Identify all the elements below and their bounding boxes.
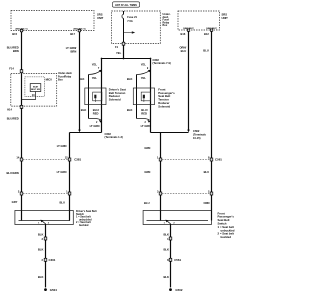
svg-text:SRS: SRS [97,13,103,17]
seat belt logic box [30,84,41,92]
pin H14 [20,105,23,108]
under-dash fuse/relay box (MICU) [11,74,57,107]
svg-text:BLK: BLK [81,108,87,112]
bottom-left bus C602 [70,132,102,134]
bottom-right bus C602 [151,132,189,134]
SRS unit (top left) [11,11,94,31]
pin B12 [210,29,212,31]
svg-text:BLU/RED: BLU/RED [7,46,19,50]
driver BLK pigtail [88,75,90,119]
pin F14 [20,70,23,73]
front passenger's seat belt tension reducer solenoid [133,88,154,105]
svg-text:Fuse 21: Fuse 21 [127,15,137,19]
pin B17 [78,29,80,31]
svg-text:B16: B16 [181,32,186,36]
SRS B12 wire [211,31,213,210]
svg-text:B15: B15 [12,32,17,36]
svg-text:H14: H14 [7,107,12,111]
svg-text:RED: RED [93,111,99,115]
svg-text:C301: C301 [49,258,56,262]
svg-text:LT GRN: LT GRN [57,170,67,174]
front passenger's seat belt switch [143,211,211,225]
svg-text:YEL: YEL [92,76,98,80]
svg-text:ORN/: ORN/ [179,46,186,50]
svg-text:BLK: BLK [127,108,133,112]
connector C301 [44,258,47,261]
svg-text:YEL: YEL [141,76,147,80]
svg-text:GRY: GRY [12,200,18,204]
svg-text:(Terminals 7-9): (Terminals 7-9) [153,61,171,65]
svg-text:YEL: YEL [141,63,147,67]
svg-text:B12: B12 [204,32,209,36]
pin F1 [122,42,125,45]
fuse arrow [124,32,133,34]
svg-text:GRN: GRN [144,146,150,150]
passenger BLK pigtail [136,75,138,119]
svg-text:BLU: BLU [59,200,65,204]
svg-text:BLU: BLU [203,49,209,53]
connector C561 row [162,159,210,161]
svg-text:BLK: BLK [38,247,44,251]
SRS unit (top right) [178,11,220,30]
driver's seat belt switch [15,211,73,225]
connector row 2 (left) [23,193,68,195]
SRS B17 wire [79,32,81,131]
passenger branch main wire [150,59,152,133]
switch arm [42,221,46,224]
ground G502 [169,288,172,291]
svg-text:UNIT: UNIT [222,16,229,20]
svg-text:LT GRN/: LT GRN/ [66,46,77,50]
driver's seat belt tension reducer solenoid [85,88,106,105]
svg-text:BLK: BLK [38,275,44,279]
pin B16 [187,29,189,31]
wire fuse to bus [123,45,125,59]
svg-text:BLU: BLU [181,49,187,53]
connector C561 (lower) [169,258,172,261]
C602 terminal 2 hook (passenger) [137,119,150,121]
svg-text:buckled: buckled [221,235,232,239]
svg-text:RED: RED [141,111,147,115]
svg-text:BLU: BLU [144,201,150,205]
svg-text:buckled: buckled [79,224,89,227]
svg-text:Solenoid: Solenoid [158,104,170,108]
wire below passenger switch [170,225,172,288]
svg-text:BLU/RED: BLU/RED [7,116,19,120]
fuse 21 [123,11,125,14]
L2 wire (driver switch right leg) [69,133,71,211]
svg-text:BELT SW: BELT SW [31,89,40,91]
svg-text:BRN: BRN [70,50,76,54]
svg-text:ORN: ORN [204,201,210,205]
C602 terminal 2 hook (driver) [89,119,102,121]
svg-text:BLK: BLK [38,233,44,237]
HOT AT ALL TIMES [113,2,140,7]
svg-text:BLU: BLU [204,170,210,174]
wire MICU to L1 [22,92,36,100]
svg-text:GRN: GRN [144,170,150,174]
svg-text:C561: C561 [215,158,222,162]
svg-text:LT GRN: LT GRN [57,144,67,148]
svg-text:UNIT: UNIT [97,16,104,20]
svg-text:SEAT: SEAT [33,85,39,88]
svg-text:Box: Box [58,79,63,82]
svg-text:BLU/GRN: BLU/GRN [6,171,18,175]
svg-text:LT GRN: LT GRN [141,124,151,128]
svg-text:C602: C602 [105,132,112,136]
SRS B16 wire [188,31,190,130]
svg-text:MICU: MICU [46,79,53,82]
pin 3 joint [44,237,47,240]
top bus [102,58,151,60]
svg-text:BLK: BLK [163,233,169,237]
svg-text:G504: G504 [50,288,57,292]
svg-text:BLK: BLK [163,247,169,251]
connector row 2 (right) [162,193,210,195]
ground G504 [44,288,47,291]
pin 1 joint [169,237,172,240]
svg-text:YEL: YEL [116,51,122,55]
svg-text:BRN: BRN [13,49,19,53]
svg-text:LT GRN: LT GRN [90,124,100,128]
svg-text:HOT AT ALL TIMES: HOT AT ALL TIMES [115,4,137,7]
svg-text:G502: G502 [175,288,182,292]
svg-text:Box: Box [163,24,168,27]
svg-text:YEL: YEL [92,63,98,67]
svg-text:C561: C561 [174,258,181,262]
passenger switch left leg [160,133,162,211]
svg-text:7.5A: 7.5A [127,19,133,23]
left column L1 wire from SRS to switch [21,32,23,211]
svg-text:(Terminals 1-3): (Terminals 1-3) [105,135,123,139]
svg-text:BLK: BLK [127,77,133,81]
wire below driver switch [45,225,47,288]
driver branch main wire [101,59,103,133]
svg-text:B17: B17 [70,32,75,36]
switch arm [167,221,171,224]
svg-text:C602: C602 [153,58,160,62]
svg-text:SRS: SRS [222,13,228,17]
svg-text:Solenoid: Solenoid [109,98,121,102]
svg-text:BLK: BLK [163,275,169,279]
svg-text:F14: F14 [9,67,14,71]
svg-text:10-15): 10-15) [193,136,201,140]
under-dash fuse/relay box (top) [112,11,161,44]
svg-text:C381: C381 [74,158,81,162]
MICU [25,77,44,96]
connector C381 row [23,159,68,161]
pin B15 [20,29,22,31]
